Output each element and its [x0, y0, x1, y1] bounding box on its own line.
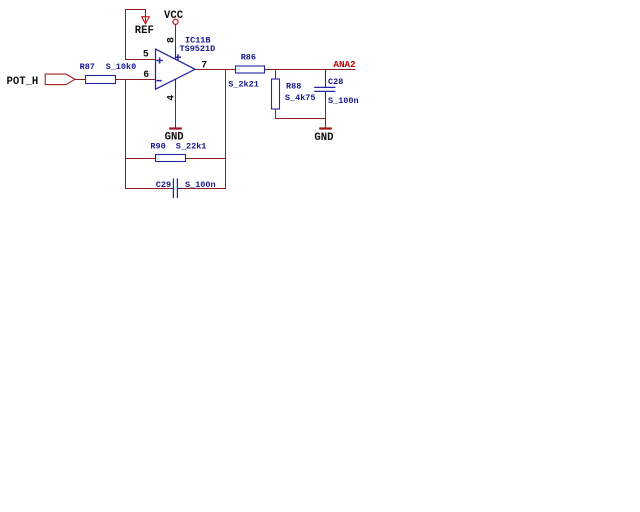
svg-text:S_10k0: S_10k0 — [106, 62, 137, 72]
wire C28 bottom lead to GND — [325, 92, 327, 100]
svg-text:C29: C29 — [156, 180, 171, 190]
wire POT_H connector to R87 — [75, 79, 86, 81]
svg-text:C28: C28 — [328, 77, 343, 87]
svg-text:R88: R88 — [286, 81, 301, 91]
wire C29 left lead — [126, 188, 172, 190]
supply VCC circle — [173, 19, 178, 24]
wire VCC to pin8 — [175, 25, 177, 49]
svg-text:VCC: VCC — [164, 10, 184, 22]
svg-text:S_100n: S_100n — [328, 96, 359, 106]
resistor R86 body — [236, 66, 265, 73]
capacitor C28 plates — [315, 87, 335, 91]
wire R90 left lead — [126, 158, 156, 160]
svg-text:S_2k21: S_2k21 — [228, 80, 259, 90]
wire pin5 horizontal — [126, 59, 156, 61]
wire C28 top lead — [325, 70, 327, 88]
ground bar right — [320, 127, 330, 129]
wire R87 to op-amp pin6 — [116, 79, 156, 81]
ground bar under op-amp — [170, 127, 180, 129]
svg-text:S_100n: S_100n — [185, 180, 216, 190]
op-amp power plus mark — [176, 55, 181, 60]
svg-text:POT_H: POT_H — [7, 76, 39, 88]
connector POT_H — [45, 74, 75, 85]
resistor R87 body — [86, 76, 116, 84]
supply symbol REF triangle — [142, 17, 150, 24]
svg-text:ANA2: ANA2 — [333, 59, 356, 70]
op-amp U=IC11B triangle — [156, 49, 196, 89]
svg-text:5: 5 — [143, 49, 149, 60]
wire R90 right lead — [186, 158, 226, 160]
resistor R90 body — [156, 155, 186, 162]
op-amp plus input mark — [157, 58, 162, 63]
resistor R88 body — [272, 79, 280, 109]
wire R88 bottom lead to junction — [276, 109, 326, 119]
capacitor C29 plates — [173, 179, 177, 198]
svg-text:REF: REF — [135, 25, 154, 37]
svg-text:GND: GND — [314, 132, 333, 144]
svg-text:S_22k1: S_22k1 — [176, 142, 207, 152]
wire R86 to ANA2 — [265, 69, 356, 71]
op-amp minus input mark — [157, 80, 161, 82]
wire op-amp output to R86 — [195, 69, 236, 71]
svg-text:R86: R86 — [241, 52, 256, 62]
svg-text:R87: R87 — [80, 62, 95, 72]
wire R88 top lead — [275, 70, 277, 80]
svg-text:7: 7 — [201, 60, 207, 71]
svg-text:8: 8 — [165, 37, 176, 43]
wire C29 right lead — [178, 188, 183, 190]
svg-text:TS9521D: TS9521D — [180, 44, 216, 54]
svg-text:6: 6 — [143, 69, 149, 80]
wire feedback right vertical — [225, 70, 227, 189]
wire REF net: up from pin5 corner, across, down to REF symbol — [126, 10, 146, 60]
wire pin4 to GND — [175, 80, 177, 90]
svg-text:S_4k75: S_4k75 — [285, 93, 316, 103]
svg-text:R90: R90 — [150, 142, 165, 152]
wire feedback left vertical — [125, 80, 127, 189]
svg-text:4: 4 — [165, 95, 176, 101]
